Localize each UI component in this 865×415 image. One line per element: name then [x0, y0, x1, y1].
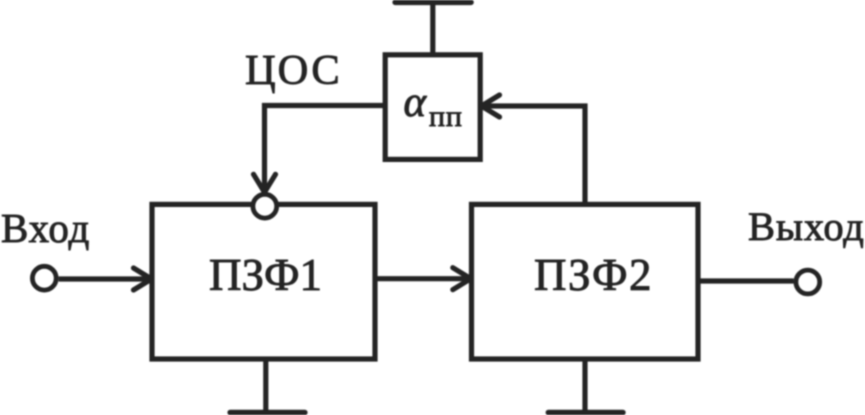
svg-text:ЦОС: ЦОС [245, 47, 342, 94]
ground bar under ПЗФ2 [548, 410, 623, 415]
arrowhead down into summing node [254, 174, 276, 192]
svg-text:Выход: Выход [748, 204, 865, 249]
wire: ПЗФ1 to ПЗФ2 [375, 276, 469, 281]
svg-text:Вход: Вход [1, 205, 90, 251]
power rail bar (top) [395, 0, 471, 5]
arrowhead into ПЗФ2 [453, 268, 471, 290]
summing node circle on ПЗФ1 top [253, 194, 277, 218]
svg-text:пп: пп [429, 100, 463, 133]
output terminal circle [796, 270, 820, 294]
wire: ПЗФ2 to output terminal [698, 278, 794, 283]
input terminal circle [32, 266, 56, 290]
wire: input terminal to ПЗФ1 [59, 276, 150, 281]
svg-text:α: α [404, 79, 428, 126]
block ПЗФ2 [472, 204, 699, 359]
wire: alpha block left to summing node (ЦОС feedback) [265, 106, 386, 191]
arrowhead into alpha block right side [482, 95, 500, 117]
block alpha_pp [385, 55, 480, 160]
ground bar under ПЗФ1 [230, 410, 305, 415]
wire: top bar to alpha block [430, 2, 435, 55]
block ПЗФ1 [152, 204, 375, 359]
svg-text:ПЗФ2: ПЗФ2 [534, 250, 653, 300]
ground stub under ПЗФ2 [582, 359, 587, 411]
ground stub under ПЗФ1 [263, 359, 268, 411]
svg-text:ПЗФ1: ПЗФ1 [209, 250, 322, 300]
arrowhead into ПЗФ1 [134, 268, 152, 290]
wire: ПЗФ2 top to alpha block (feedback) [483, 106, 585, 204]
